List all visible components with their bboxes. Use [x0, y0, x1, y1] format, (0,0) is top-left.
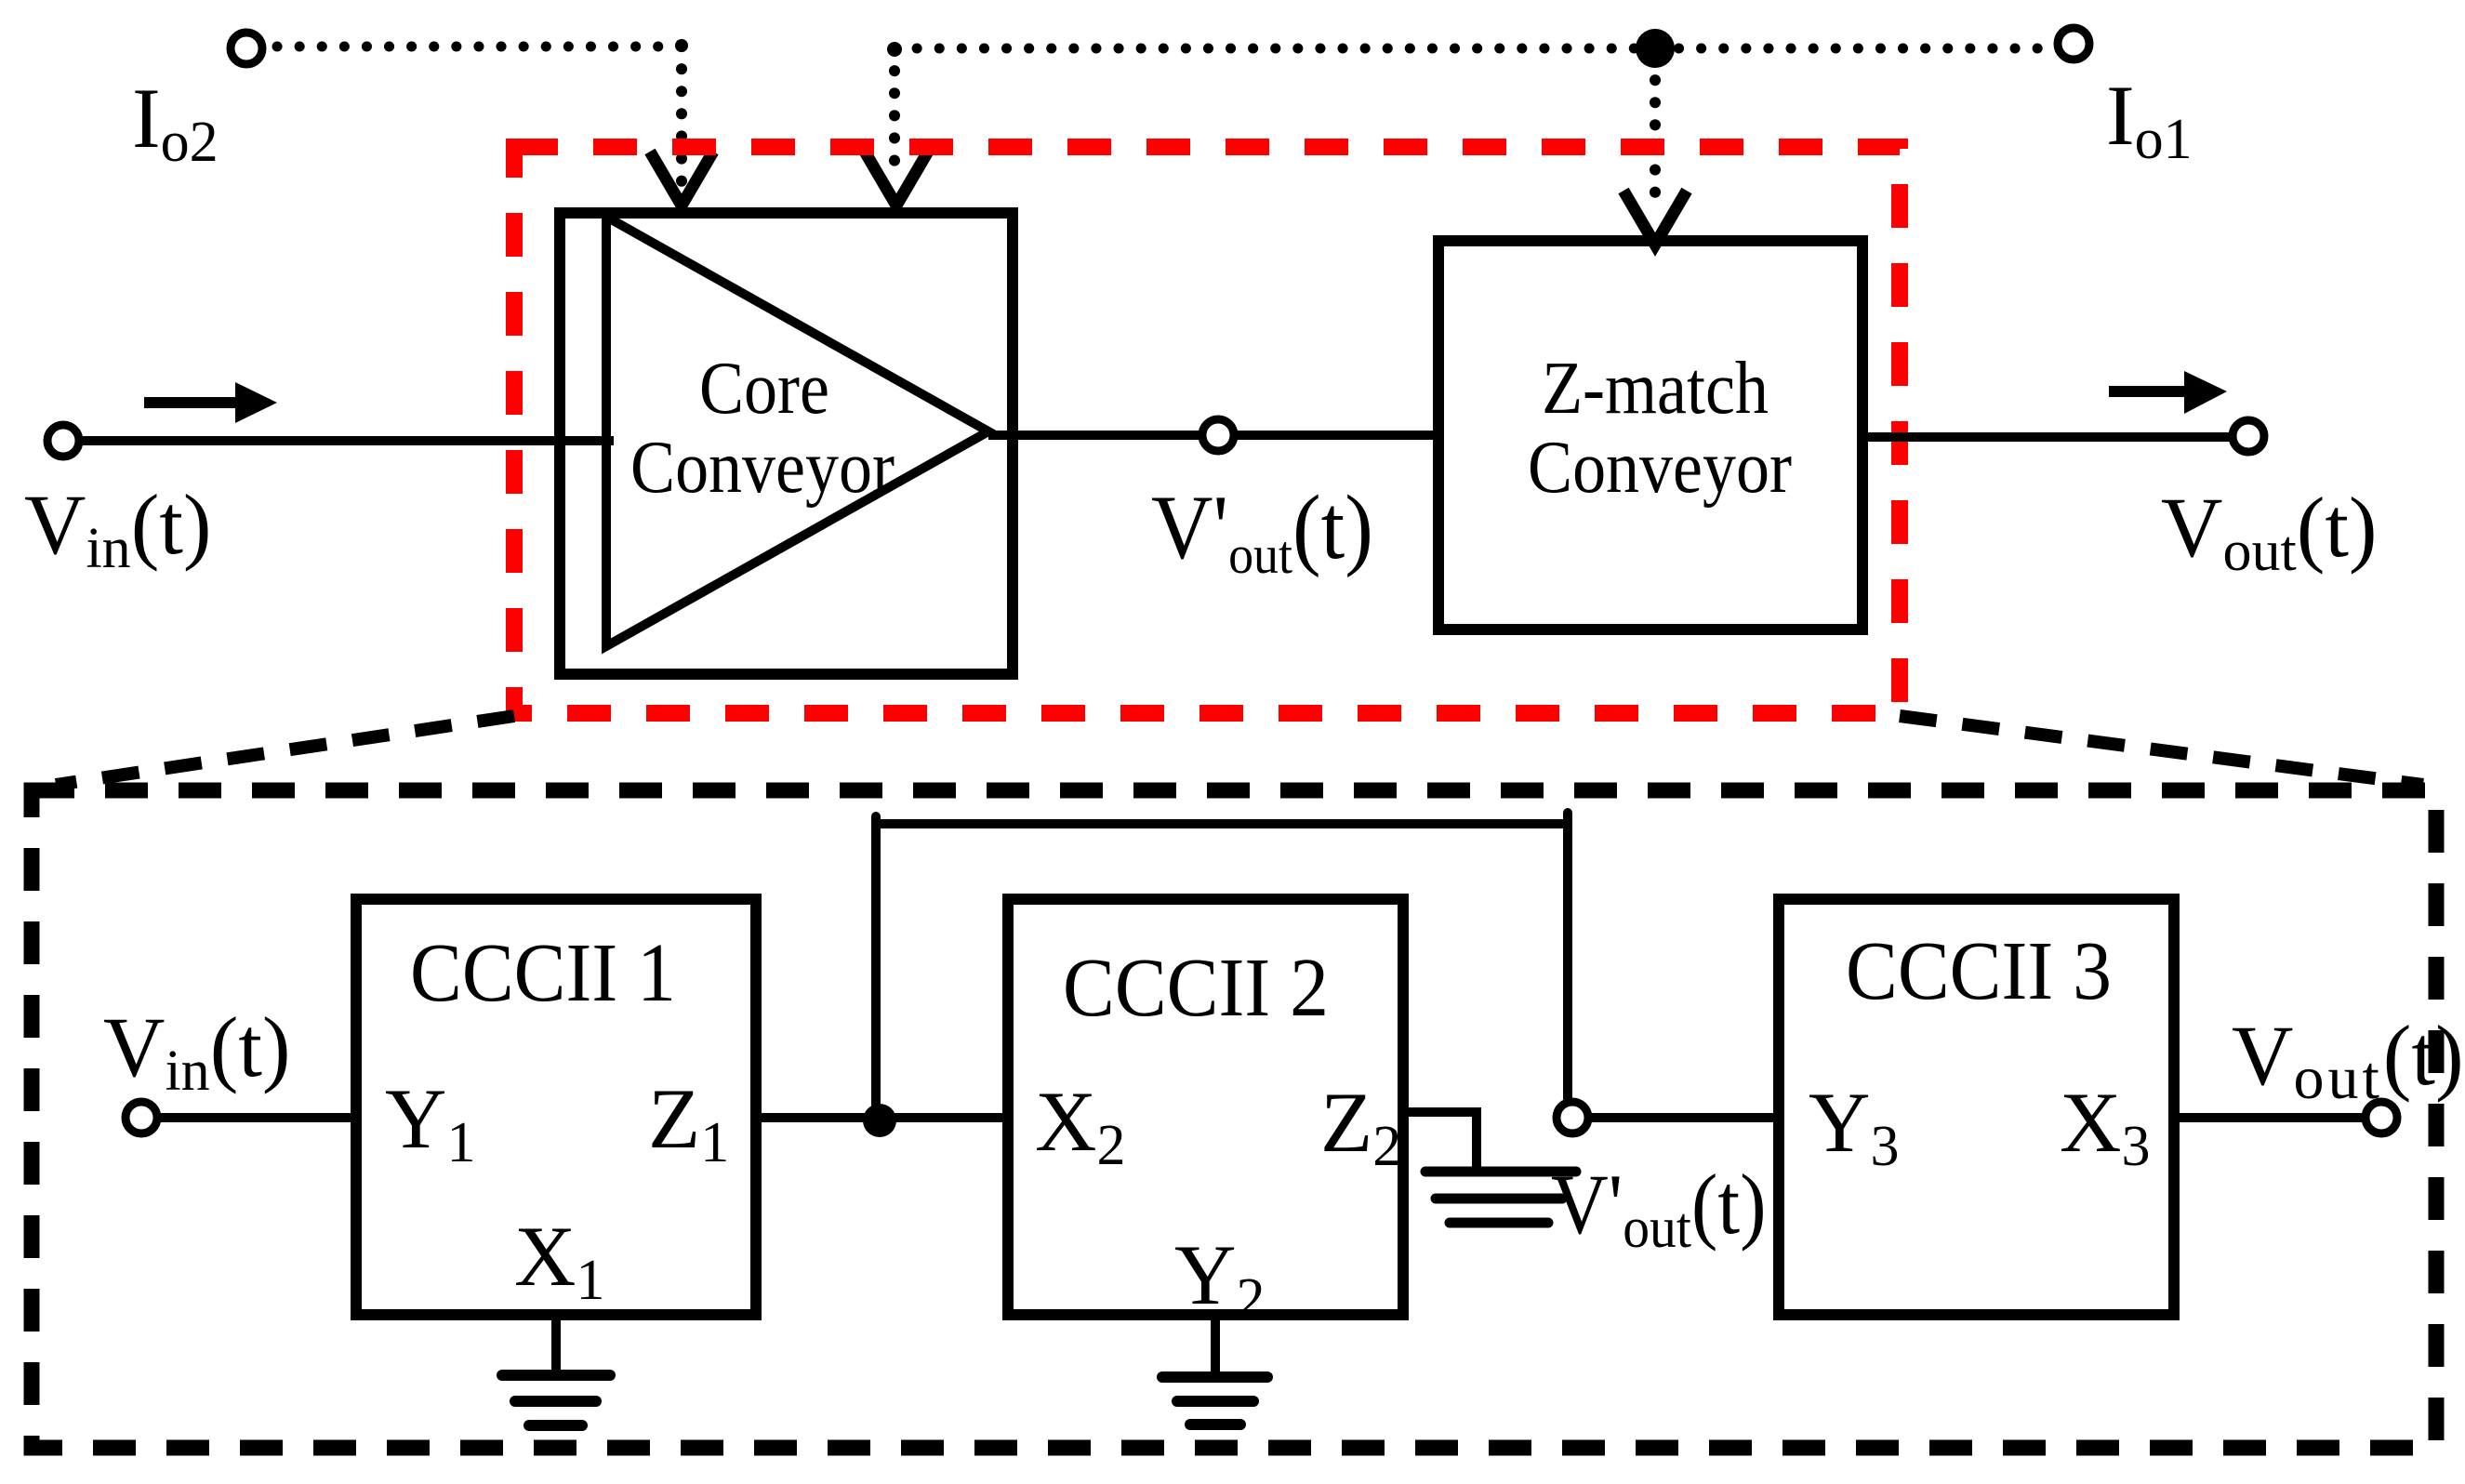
- wire Vin to Y1: [158, 1113, 356, 1122]
- block CCCII 1: [356, 899, 756, 1315]
- terminal Io2: [231, 33, 262, 64]
- svg-text:CCCII 2: CCCII 2: [1063, 941, 1329, 1033]
- svg-text:X1: X1: [514, 1209, 604, 1312]
- block CCCII 2: [1008, 899, 1403, 1315]
- svg-text:Io2: Io2: [132, 71, 219, 174]
- wire z-match to Vout terminal: [1862, 432, 2230, 442]
- block CCCII 3: [1779, 899, 2174, 1315]
- output current arrow: [2109, 386, 2187, 397]
- dotted wire Io2 vertical drop: [676, 46, 687, 181]
- svg-text:Io1: Io1: [2106, 68, 2193, 171]
- dashed zoom line right: [1900, 716, 2423, 785]
- arrowhead into core conveyor left: [650, 152, 713, 205]
- red dashed boundary box: [514, 147, 1900, 713]
- svg-text:Z2: Z2: [1320, 1075, 1401, 1178]
- svg-text:Y1: Y1: [385, 1071, 475, 1174]
- wire Z1 to X2: [756, 1113, 1008, 1122]
- terminal Vin: [47, 425, 79, 457]
- feedback wire down to V'out: [1563, 813, 1572, 1099]
- corner dot dotted line 2: [887, 42, 902, 57]
- arrowhead into core conveyor right: [865, 152, 928, 205]
- svg-text:X2: X2: [1035, 1074, 1125, 1177]
- feedback wire up: [871, 816, 881, 1122]
- junction node A: [863, 1104, 896, 1137]
- svg-text:Vin(t): Vin(t): [103, 1000, 291, 1103]
- ground X1: [551, 1315, 561, 1375]
- svg-text:Z-match: Z-match: [1542, 348, 1769, 430]
- svg-text:Vout(t): Vout(t): [2232, 1008, 2464, 1112]
- corner dot dotted line 1: [675, 39, 688, 52]
- svg-text:V'out(t): V'out(t): [1151, 476, 1373, 585]
- node V'out bottom: [1557, 1102, 1588, 1133]
- terminal Vin bottom: [126, 1102, 157, 1133]
- svg-text:Conveyor: Conveyor: [1528, 427, 1792, 509]
- feedback wire top horizontal: [876, 819, 1568, 828]
- svg-text:Z1: Z1: [648, 1071, 729, 1174]
- dotted wire Io1 horizontal: [895, 44, 2053, 54]
- wire X3 to Vout terminal: [2174, 1113, 2362, 1122]
- svg-text:Conveyor: Conveyor: [630, 427, 895, 509]
- dotted wire vertical drop to z-match: [1650, 58, 1661, 214]
- terminal Vout bottom: [2366, 1102, 2397, 1133]
- junction dot on Io1 line: [1636, 29, 1675, 68]
- wire core conveyor to z-match: [988, 431, 1433, 440]
- svg-text:CCCII 3: CCCII 3: [1846, 924, 2112, 1016]
- input current arrow: [144, 397, 238, 408]
- svg-text:Core: Core: [699, 348, 829, 430]
- dotted wire Io2 horizontal: [277, 42, 682, 52]
- wire Vin to core conveyor: [80, 436, 614, 445]
- black dashed detail box: [32, 790, 2436, 1448]
- svg-text:CCCII 1: CCCII 1: [410, 926, 676, 1018]
- ground Z2: [1425, 1167, 1576, 1177]
- arrowhead into z-match conveyor: [1623, 191, 1687, 245]
- svg-text:Y3: Y3: [1809, 1075, 1899, 1178]
- dotted wire Io1 vertical drop to core conveyor: [889, 48, 900, 181]
- svg-text:Vout(t): Vout(t): [2161, 480, 2378, 583]
- ground Y2: [1211, 1315, 1220, 1377]
- wire Z2 to ground: [1403, 1112, 1477, 1168]
- core conveyor block: [560, 213, 1013, 674]
- node V'out top: [1202, 419, 1234, 451]
- dashed zoom line left: [56, 716, 514, 785]
- amplifier triangle: [606, 217, 988, 646]
- terminal Io1: [2058, 28, 2089, 60]
- terminal Vout: [2233, 420, 2264, 452]
- z-match conveyor block: [1438, 241, 1862, 629]
- svg-text:V'out(t): V'out(t): [1551, 1158, 1767, 1259]
- svg-text:Vin(t): Vin(t): [24, 477, 212, 580]
- wire V'out to Y3: [1592, 1113, 1779, 1122]
- svg-text:X3: X3: [2060, 1075, 2150, 1178]
